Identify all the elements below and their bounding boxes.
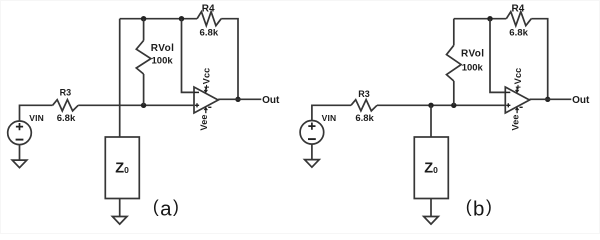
svg-text:R4: R4 (512, 4, 525, 15)
svg-text:6.8k: 6.8k (57, 113, 76, 124)
svg-text:R4: R4 (202, 4, 215, 15)
svg-text:RVol: RVol (461, 49, 484, 60)
svg-text:100k: 100k (152, 55, 174, 66)
svg-text:VIN: VIN (29, 113, 44, 123)
svg-text:Vee: Vee (199, 114, 209, 130)
svg-text:100k: 100k (462, 62, 484, 73)
svg-text:6.8k: 6.8k (355, 113, 374, 124)
svg-text:Vee: Vee (510, 114, 520, 130)
svg-text:VIN: VIN (322, 113, 337, 123)
svg-text:+Vcc: +Vcc (202, 68, 212, 90)
svg-text:R3: R3 (358, 89, 370, 99)
svg-text:Out: Out (262, 95, 280, 106)
svg-text:6.8k: 6.8k (509, 28, 528, 39)
svg-text:RVol: RVol (151, 43, 174, 54)
svg-text:Out: Out (572, 95, 590, 106)
svg-text:+Vcc: +Vcc (513, 68, 523, 90)
svg-text:6.8k: 6.8k (200, 28, 219, 39)
svg-text:R3: R3 (60, 88, 72, 98)
